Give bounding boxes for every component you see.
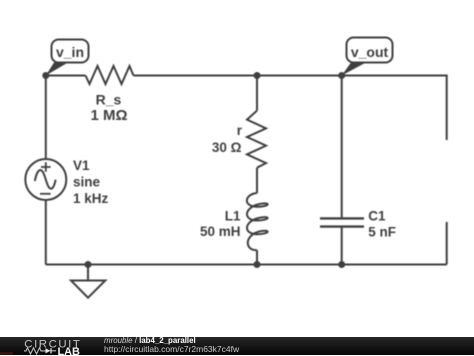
voltage source V1 body bbox=[25, 159, 66, 200]
node bottom middle bbox=[254, 261, 261, 268]
voltage source V1 sine symbol bbox=[35, 170, 56, 189]
node top middle bbox=[254, 72, 261, 79]
resistor r bbox=[247, 111, 266, 168]
circuitlab logo bbox=[22, 338, 84, 356]
node label tail v_out bbox=[342, 63, 366, 76]
wire right top stub bbox=[446, 75, 448, 141]
wire top rail bbox=[46, 75, 86, 77]
svg-text:1 MΩ: 1 MΩ bbox=[90, 107, 127, 124]
red corner mark bbox=[0, 352, 13, 355]
node label v_in bbox=[52, 40, 89, 63]
wire bottom rail bbox=[46, 264, 447, 266]
wire capacitor branch upper bbox=[341, 76, 343, 219]
svg-text:30 Ω: 30 Ω bbox=[212, 140, 242, 155]
wire left rail upper bbox=[45, 76, 47, 160]
svg-text:5 nF: 5 nF bbox=[368, 224, 396, 239]
wire middle branch upper bbox=[256, 76, 258, 111]
svg-text:v_out: v_out bbox=[351, 44, 389, 60]
ground bbox=[87, 265, 89, 281]
svg-text:L1: L1 bbox=[225, 208, 241, 223]
wire capacitor branch lower bbox=[341, 227, 343, 265]
node ground bbox=[85, 261, 92, 268]
node label tail v_in bbox=[46, 63, 68, 76]
wire top rail right of R_s bbox=[134, 75, 447, 77]
wire between r and L1 bbox=[256, 168, 258, 193]
svg-text:1 kHz: 1 kHz bbox=[73, 191, 109, 206]
node label v_out bbox=[347, 38, 393, 63]
node v_in dot bbox=[42, 72, 49, 79]
svg-text:R_s: R_s bbox=[96, 91, 122, 107]
node v_out dot bbox=[338, 72, 345, 79]
wire left rail lower bbox=[45, 200, 47, 265]
node bottom cap bbox=[338, 261, 345, 268]
svg-text:r: r bbox=[237, 123, 243, 138]
wire right bottom stub bbox=[446, 222, 448, 265]
svg-text:v_in: v_in bbox=[56, 44, 84, 60]
resistor R_s bbox=[86, 66, 134, 84]
wire below L1 bbox=[256, 250, 258, 264]
svg-text:V1: V1 bbox=[73, 158, 90, 173]
voltage source V1 polarity marks bbox=[40, 162, 51, 194]
svg-text:sine: sine bbox=[73, 174, 101, 189]
capacitor C1 bbox=[320, 218, 364, 226]
inductor L1 bbox=[247, 193, 268, 250]
svg-text:50 mH: 50 mH bbox=[200, 224, 241, 239]
footer bar bbox=[0, 337, 474, 356]
svg-text:C1: C1 bbox=[368, 209, 386, 224]
svg-text:LAB: LAB bbox=[58, 346, 81, 356]
